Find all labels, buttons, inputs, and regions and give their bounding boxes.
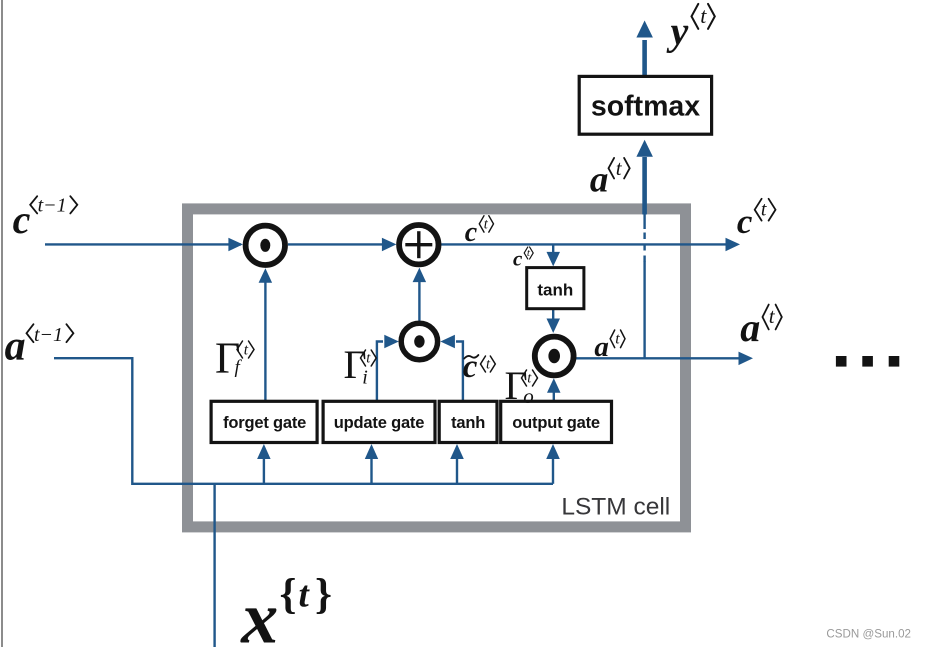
svg-text:a: a [594, 331, 609, 363]
svg-text:t: t [244, 342, 249, 359]
svg-text:output gate: output gate [512, 414, 600, 432]
svg-text:c: c [13, 197, 31, 242]
svg-text:tanh: tanh [451, 414, 485, 432]
svg-text:t: t [761, 199, 767, 221]
svg-text:t: t [700, 3, 707, 28]
svg-text:a: a [590, 160, 609, 201]
svg-text:update gate: update gate [334, 414, 424, 432]
svg-text:{: { [280, 571, 297, 618]
svg-text:a: a [740, 305, 760, 350]
svg-text:y: y [667, 9, 689, 54]
svg-text:forget gate: forget gate [223, 414, 306, 432]
svg-text:tanh: tanh [537, 280, 573, 299]
svg-text:c: c [737, 202, 753, 241]
svg-text:c: c [513, 247, 523, 271]
svg-text:t: t [615, 330, 620, 347]
svg-text:CSDN @Sun.02: CSDN @Sun.02 [826, 628, 911, 641]
svg-text:}: } [315, 571, 332, 618]
svg-text:x: x [240, 577, 278, 647]
svg-text:LSTM cell: LSTM cell [561, 494, 670, 521]
svg-text:c: c [465, 217, 478, 248]
svg-text:i: i [362, 367, 368, 389]
svg-text:softmax: softmax [591, 91, 700, 123]
svg-text:t−1: t−1 [34, 324, 63, 346]
svg-text:t: t [299, 575, 311, 616]
svg-text:c: c [463, 349, 478, 385]
svg-text:a: a [5, 323, 26, 369]
svg-text:t−1: t−1 [38, 195, 67, 217]
svg-text:o: o [523, 384, 534, 408]
